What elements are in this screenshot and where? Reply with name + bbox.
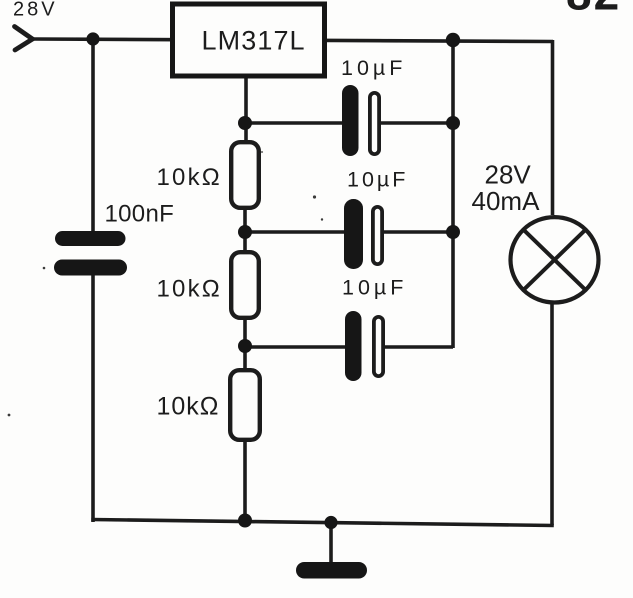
svg-text:10kΩ: 10kΩ xyxy=(157,276,222,303)
svg-text:10µF: 10µF xyxy=(347,168,408,192)
svg-text:10µF: 10µF xyxy=(341,56,406,80)
svg-text:LM317L: LM317L xyxy=(202,26,306,56)
svg-text:100nF: 100nF xyxy=(105,201,175,228)
svg-text:10kΩ: 10kΩ xyxy=(157,164,222,191)
svg-text:10kΩ: 10kΩ xyxy=(157,393,220,421)
svg-text:28V: 28V xyxy=(13,0,58,21)
svg-text:28V: 28V xyxy=(485,160,532,190)
svg-text:82: 82 xyxy=(566,0,621,20)
svg-text:10µF: 10µF xyxy=(342,276,407,300)
svg-text:40mA: 40mA xyxy=(472,186,541,216)
